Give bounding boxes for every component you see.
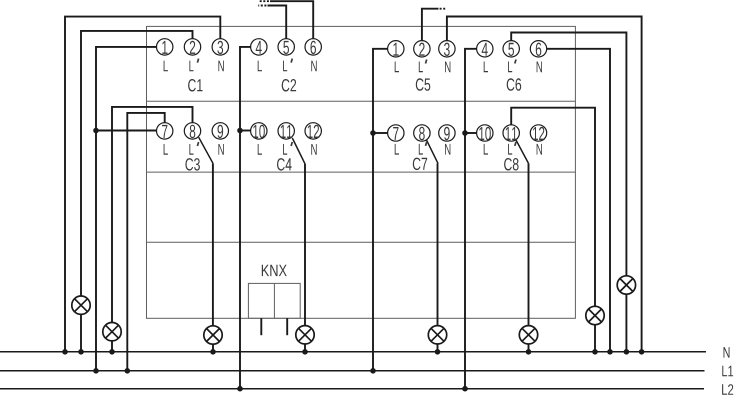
wire lamp E8 to N rail <box>594 325 596 352</box>
wire lamp E3 to N rail <box>212 344 214 352</box>
terminal 8 at x=421.9 y=133.0 <box>414 125 430 141</box>
label channel C1 <box>188 79 202 92</box>
label Lp for terminal column x=421.9 <box>419 142 427 155</box>
device enclosure <box>147 26 576 318</box>
junction on N rail x=595 <box>592 349 598 355</box>
dotted continuation of terminal2-C5 wire <box>440 8 446 10</box>
lamp E1 <box>72 296 90 314</box>
wire: N rail <box>0 351 706 353</box>
junction on L2 rail x=240 <box>237 386 243 392</box>
label N for terminal column x=538.5 <box>537 144 542 155</box>
wire C7 switch to lamp E5 (x=437.5) <box>437 163 439 325</box>
wire lamp E5 to N rail <box>437 344 439 352</box>
dotted continuation of terminal6-C2 wire <box>259 0 269 2</box>
label Lp for terminal column x=511.2 <box>508 142 516 155</box>
label Lp for terminal column x=192.5 <box>189 59 198 72</box>
lamp E6 <box>519 326 537 344</box>
label Lp for terminal column x=286.2 <box>283 59 292 72</box>
switch contact C3 <box>199 137 213 163</box>
terminal 5 at x=286.2 y=46.9 <box>278 39 294 55</box>
wire terminal3-C5 to N rail (x=641.6) <box>447 17 642 352</box>
wire terminal5-C2 continuation <box>268 6 287 39</box>
switch contact C8 <box>516 140 529 164</box>
lamp E5 <box>428 326 446 344</box>
terminal 9 at x=446.9 y=133.0 <box>439 125 455 141</box>
junction on N rail x=213 <box>210 349 216 355</box>
junction on L1 rail x=127 <box>125 368 131 374</box>
terminal 3 at x=446.9 y=48.8 <box>439 41 455 57</box>
wire L1 feed to terminal1-C1 (x=96) <box>96 47 157 371</box>
lamp E7 <box>617 276 635 294</box>
KNX bus stub + <box>260 318 262 335</box>
wire junction to terminal10-C4 <box>240 130 251 132</box>
label channel C4 <box>277 158 292 171</box>
label L1 rail <box>722 366 733 377</box>
terminal 1 at x=164.7 y=46.9 <box>157 39 173 55</box>
junction on N rail x=65 <box>62 349 68 355</box>
label L for terminal column x=164.7 <box>164 144 168 155</box>
junction L1-feed to terminal7-C3 <box>93 128 99 134</box>
wire terminal2-C5 continuation <box>422 9 439 41</box>
label L for terminal column x=395.8 <box>395 62 399 73</box>
terminal 12 at x=313.2 y=130.9 <box>305 123 321 139</box>
wire L1 feed to terminal1-C5 (x=372.5) <box>373 49 388 371</box>
terminal 6 at x=313.2 y=46.9 <box>305 39 321 55</box>
terminal 3 at x=220.3 y=46.9 <box>212 39 228 55</box>
KNX terminal block <box>248 283 300 318</box>
wire junction to terminal10-C8 <box>465 132 477 134</box>
wire C3 switch to lamp E3 (x=213) <box>212 163 214 326</box>
terminal 7 at x=164.7 y=130.9 <box>157 123 173 139</box>
label channel C5 <box>416 78 431 91</box>
wire C8 switch to lamp E6 (x=528.5) <box>528 163 530 325</box>
dotted continuation of terminal5-C2 wire <box>258 5 266 7</box>
label L for terminal column x=484.8 <box>484 62 488 73</box>
terminal 6 at x=538.5 y=48.8 <box>530 41 546 57</box>
wire terminal11-C8 to lamp E8 (x=595) <box>511 108 595 307</box>
enclosure divider row2/row3 <box>147 171 576 173</box>
wire L2 feed to terminal4-C2 (x=240) <box>240 47 251 389</box>
terminal 2 at x=192.5 y=46.9 <box>184 39 200 55</box>
wire C4 switch to lamp E4 (x=305) <box>304 164 306 326</box>
label L for terminal column x=258.8 <box>258 144 262 155</box>
label N for terminal column x=446.9 <box>445 144 450 155</box>
label Lp for terminal column x=421.9 <box>419 60 427 73</box>
label N for terminal column x=538.5 <box>537 62 542 73</box>
junction on N rail x=437.5 <box>435 349 441 355</box>
wire L2 feed to terminal4-C6 (x=465) <box>465 49 477 389</box>
label Lp for terminal column x=286.2 <box>283 142 292 155</box>
terminal 11 at x=511.2 y=133.0 <box>503 125 519 141</box>
wire terminal8-C3 to lamp E2 (x=112) <box>112 107 193 323</box>
terminal 4 at x=484.8 y=48.8 <box>477 41 493 57</box>
label N for terminal column x=313.2 <box>311 144 316 155</box>
label N rail <box>724 347 730 358</box>
terminal 12 at x=538.5 y=133.0 <box>530 125 546 141</box>
wire terminal6-C6 to N rail (x=610) <box>547 49 610 352</box>
junction on N rail x=305 <box>302 349 308 355</box>
junction L2-feed to terminal10-C4 <box>237 128 243 134</box>
label channel C8 <box>504 158 518 171</box>
wire: L2 rail <box>0 388 704 390</box>
wire terminal7-C3 to L1 rail (x=127) <box>127 113 164 371</box>
terminal 10 at x=258.8 y=130.9 <box>251 123 267 139</box>
junction on L1 rail x=372.5 <box>370 368 376 374</box>
label L2 rail <box>722 384 733 395</box>
wire junction to terminal7-C3 <box>96 130 157 132</box>
label L for terminal column x=258.8 <box>258 61 262 72</box>
enclosure divider row3/row4 <box>147 241 576 243</box>
label Lp for terminal column x=192.5 <box>189 142 198 155</box>
junction on N rail x=641.6 <box>639 349 645 355</box>
label L for terminal column x=484.8 <box>484 144 488 155</box>
lamp E4 <box>296 326 314 344</box>
terminal 8 at x=192.5 y=130.9 <box>184 123 200 139</box>
wire lamp E1 to N rail <box>80 314 82 351</box>
lamp E8 <box>586 306 604 324</box>
label Lp for terminal column x=511.2 <box>508 60 516 73</box>
wire lamp E7 to N rail <box>625 294 627 352</box>
terminal 1 at x=395.8 y=48.8 <box>388 41 404 57</box>
wire lamp E6 to N rail <box>528 344 530 352</box>
wire: L1 rail <box>0 370 705 372</box>
label N for terminal column x=446.9 <box>445 62 450 73</box>
terminal 11 at x=286.2 y=130.9 <box>278 123 294 139</box>
terminal 7 at x=395.8 y=133.0 <box>388 125 404 141</box>
wire junction to terminal7-C7 <box>373 132 388 134</box>
terminal 2 at x=421.9 y=48.8 <box>414 41 430 57</box>
label L for terminal column x=164.7 <box>164 61 168 72</box>
wire terminal5-C6 to lamp E7 (x=626.4) <box>511 33 626 276</box>
terminal 9 at x=220.3 y=130.9 <box>212 123 228 139</box>
junction on N rail x=626.4 <box>624 349 630 355</box>
label channel C6 <box>507 78 522 91</box>
label N for terminal column x=220.3 <box>218 61 223 72</box>
label channel C2 <box>282 79 296 92</box>
terminal 5 at x=511.2 y=48.8 <box>503 41 519 57</box>
label N for terminal column x=313.2 <box>311 61 316 72</box>
junction on L1 rail x=96 <box>93 368 99 374</box>
label L for terminal column x=395.8 <box>395 144 399 155</box>
wire terminal6-C2 continuation <box>270 1 313 39</box>
label channel C3 <box>185 158 200 171</box>
KNX bus stub - <box>286 318 288 335</box>
wire terminal2-C1 to lamp E1 (x=81) <box>81 31 193 296</box>
junction L1-feed to terminal7-C7 <box>370 130 376 136</box>
label channel C7 <box>413 158 427 171</box>
junction on N rail x=81 <box>78 349 84 355</box>
enclosure divider row1/row2 <box>147 100 576 102</box>
junction on N rail x=528.5 <box>526 349 532 355</box>
label N for terminal column x=220.3 <box>218 144 223 155</box>
lamp E3 <box>204 326 222 344</box>
wire lamp E2 to N rail <box>111 341 113 352</box>
lamp E2 <box>103 323 121 341</box>
KNX block divider <box>273 283 275 318</box>
switch contact C7 <box>426 140 438 164</box>
switch contact C4 <box>292 138 305 164</box>
wire lamp E4 to N rail <box>304 344 306 352</box>
label KNX <box>262 265 287 276</box>
terminal 10 at x=484.8 y=133.0 <box>477 125 493 141</box>
junction on N rail x=610 <box>607 349 613 355</box>
terminal 4 at x=258.8 y=46.9 <box>251 39 267 55</box>
wire terminal3-C1 to N rail (x=65) <box>65 17 220 352</box>
junction L2-feed to terminal10-C8 <box>462 130 468 136</box>
junction on N rail x=112 <box>109 349 115 355</box>
junction on L2 rail x=465 <box>462 386 468 392</box>
